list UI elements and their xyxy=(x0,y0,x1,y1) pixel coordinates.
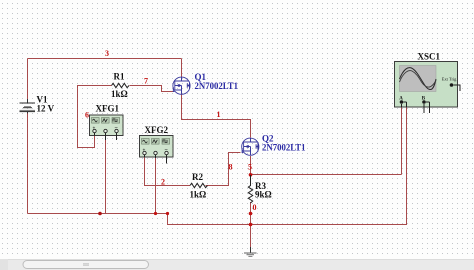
wire XFG1 common down xyxy=(105,140,107,214)
svg-text:5: 5 xyxy=(248,163,252,172)
wire ground bus step and lower run to scope A- xyxy=(168,107,407,225)
junction XFG2 common xyxy=(154,212,157,215)
svg-text:R1: R1 xyxy=(114,72,125,82)
svg-text:1kΩ: 1kΩ xyxy=(190,190,207,200)
wire XFG2 common down xyxy=(155,158,157,214)
wire battery - to ground bus xyxy=(27,114,29,214)
junction at bus step xyxy=(166,212,169,215)
svg-text:2N7002LT1: 2N7002LT1 xyxy=(262,142,306,152)
wire net 0: R3 bottom to ground bus and ground symbol xyxy=(250,202,252,247)
wire net 1: Q1 source to Q2 drain xyxy=(182,95,251,138)
svg-text:XFG2: XFG2 xyxy=(145,125,169,135)
function generator XFG2 xyxy=(140,136,174,164)
wire ground bus upper xyxy=(28,213,168,215)
mosfet Q1 xyxy=(173,77,190,94)
svg-text:12 V: 12 V xyxy=(37,104,55,114)
wire net 5: Q2 source to R3 top and scope A+ xyxy=(251,107,402,175)
oscilloscope XSC1 xyxy=(395,62,461,114)
svg-text:7: 7 xyxy=(144,77,148,86)
scrollbar track xyxy=(0,259,474,270)
wire net 2: XFG2 + down to R2 left xyxy=(145,158,191,186)
ground xyxy=(244,247,257,257)
junction on ground bus xyxy=(98,212,102,216)
svg-text:9kΩ: 9kΩ xyxy=(255,190,272,200)
resistor R1 xyxy=(111,72,129,100)
wire net 8: R2 right to Q2 gate xyxy=(206,153,241,186)
junction R3 pin xyxy=(249,212,253,216)
battery V1 xyxy=(20,95,55,114)
resistor R2 xyxy=(190,172,208,200)
svg-text:8: 8 xyxy=(229,163,233,172)
junction ground bus xyxy=(249,223,253,227)
svg-text:R2: R2 xyxy=(192,172,203,182)
svg-text:2N7002LT1: 2N7002LT1 xyxy=(195,81,239,91)
svg-text:6: 6 xyxy=(85,111,89,120)
svg-text:1kΩ: 1kΩ xyxy=(111,89,128,99)
wire net 7: R1 right to Q1 gate xyxy=(130,86,173,92)
wire net 6: XFG1 + up to R1 left xyxy=(78,86,112,148)
svg-text:3: 3 xyxy=(105,49,109,58)
junction node 5 xyxy=(249,173,253,177)
scrollbar thumb xyxy=(23,261,149,269)
wire net 3 top: battery + to Q1 drain xyxy=(28,59,182,100)
function generator XFG1 xyxy=(90,115,124,140)
svg-text:0: 0 xyxy=(253,203,257,212)
svg-text:XFG1: XFG1 xyxy=(96,104,120,114)
mosfet Q2 xyxy=(242,138,259,155)
svg-text:2: 2 xyxy=(161,178,165,187)
svg-text:1: 1 xyxy=(217,110,221,119)
resistor R3 xyxy=(248,175,271,203)
svg-text:XSC1: XSC1 xyxy=(418,52,441,62)
svg-text:Ext Trig: Ext Trig xyxy=(442,77,457,82)
